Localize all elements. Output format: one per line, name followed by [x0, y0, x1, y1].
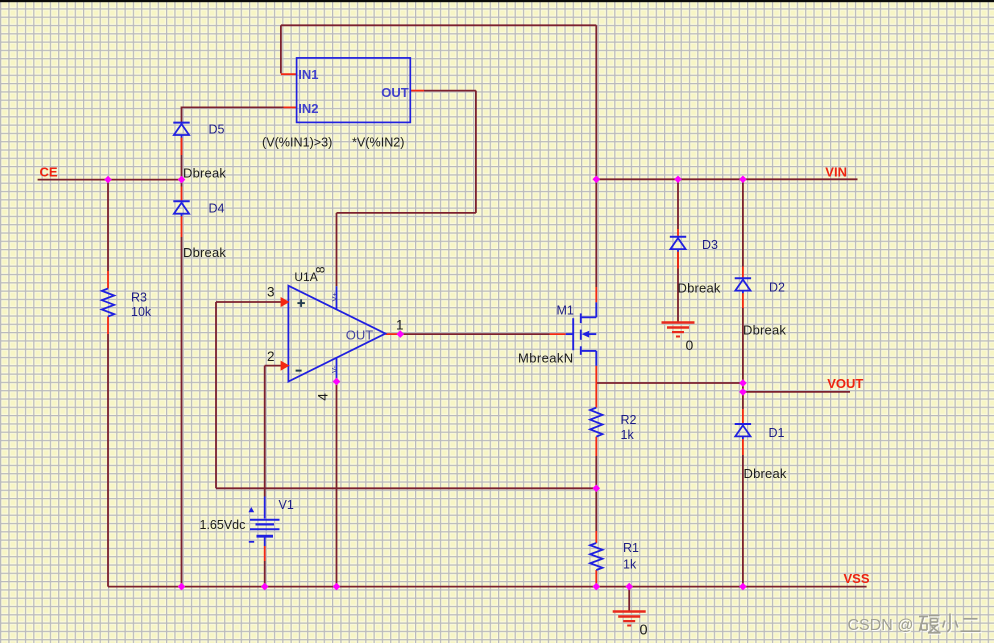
svg-text:*V(%IN2): *V(%IN2): [352, 136, 404, 150]
svg-text:VOUT: VOUT: [827, 376, 863, 391]
svg-text:(V(%IN1)>3): (V(%IN1)>3): [262, 136, 332, 150]
svg-text:R1: R1: [623, 541, 639, 555]
svg-text:D1: D1: [769, 426, 785, 440]
svg-text:2: 2: [267, 349, 275, 364]
svg-text:D5: D5: [209, 123, 225, 137]
svg-text:0: 0: [686, 337, 694, 353]
svg-text:D3: D3: [702, 238, 718, 252]
svg-text:1k: 1k: [623, 558, 637, 572]
svg-text:0: 0: [640, 623, 648, 639]
svg-text:Dbreak: Dbreak: [744, 466, 787, 481]
svg-text:OUT: OUT: [381, 85, 409, 100]
svg-text:VSS: VSS: [844, 571, 870, 586]
svg-text:Dbreak: Dbreak: [183, 165, 226, 180]
svg-text:Dbreak: Dbreak: [678, 281, 721, 296]
svg-text:3: 3: [267, 284, 275, 299]
svg-text:8: 8: [314, 266, 328, 273]
svg-text:CSDN @: CSDN @: [848, 617, 914, 634]
svg-text:Dbreak: Dbreak: [183, 245, 226, 260]
svg-text:10k: 10k: [131, 305, 152, 319]
svg-text:4: 4: [316, 393, 331, 401]
svg-text:D4: D4: [209, 201, 225, 215]
svg-text:R3: R3: [131, 291, 147, 305]
svg-text:V1: V1: [279, 498, 294, 512]
svg-text:Dbreak: Dbreak: [743, 323, 786, 338]
svg-text:VIN: VIN: [825, 164, 847, 179]
svg-text:V+: V+: [330, 291, 339, 301]
svg-text:V-: V-: [330, 365, 339, 373]
svg-text:1: 1: [396, 317, 404, 332]
svg-text:D2: D2: [769, 281, 785, 295]
svg-text:OUT: OUT: [346, 328, 374, 343]
svg-text:R2: R2: [621, 413, 637, 427]
svg-text:1.65Vdc: 1.65Vdc: [200, 518, 246, 532]
svg-text:IN1: IN1: [298, 67, 318, 82]
svg-text:M1: M1: [557, 303, 574, 317]
svg-text:IN2: IN2: [298, 101, 318, 116]
svg-text:MbreakN: MbreakN: [518, 351, 574, 366]
svg-text:1k: 1k: [621, 428, 635, 442]
svg-text:CE: CE: [40, 165, 58, 180]
